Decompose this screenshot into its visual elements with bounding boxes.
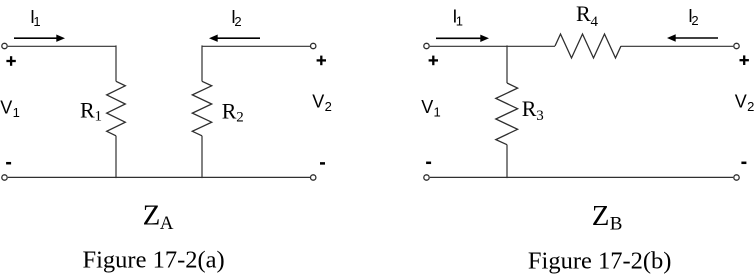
svg-text:A: A (160, 213, 174, 234)
label V1 (b) (421, 97, 441, 120)
label R2 (222, 98, 244, 125)
terminal port2- circle (a) (311, 175, 316, 180)
minus sign port1 (a) (6, 162, 11, 165)
minus sign port1 (b) (426, 162, 431, 165)
label I2 (b) (688, 6, 699, 28)
svg-text:V: V (421, 97, 433, 117)
svg-text:4: 4 (591, 14, 599, 30)
label V1 (a) (0, 97, 20, 120)
svg-text:1: 1 (33, 14, 40, 29)
label ZA (143, 199, 174, 234)
svg-text:R: R (576, 1, 591, 26)
resistor R2 (192, 81, 211, 136)
plus sign port1 (b) (429, 56, 438, 66)
svg-text:B: B (610, 213, 623, 234)
label I2 (a) (231, 7, 242, 29)
current arrow I1 (a) (14, 35, 65, 42)
resistor R3 (496, 83, 518, 145)
svg-text:Z: Z (592, 200, 610, 232)
wire top-right (a) (202, 45, 310, 47)
svg-text:1: 1 (13, 105, 20, 120)
terminal port1- circle (b) (424, 175, 429, 180)
wire R1 bottom lead (115, 136, 117, 178)
label ZB (592, 200, 623, 234)
svg-text:2: 2 (236, 110, 244, 126)
wire top-right (b) (621, 45, 733, 47)
svg-text:V: V (735, 91, 747, 111)
current arrow I2 (b) (667, 34, 718, 41)
terminal port1+ circle (a) (2, 43, 7, 48)
plus sign port1 (a) (6, 56, 15, 66)
svg-text:3: 3 (536, 108, 544, 124)
svg-text:Z: Z (143, 199, 161, 231)
label V2 (a) (312, 92, 332, 115)
wire bottom (b) (430, 176, 733, 178)
terminal port2- circle (b) (734, 175, 739, 180)
wire top-left (a) (8, 45, 116, 47)
terminal port1- circle (a) (2, 175, 7, 180)
wire R1 top lead (115, 45, 117, 81)
wire R2 top lead (201, 45, 203, 81)
minus sign port2 (a) (320, 162, 325, 165)
svg-text:V: V (0, 97, 12, 117)
terminal port1+ circle (b) (424, 43, 429, 48)
svg-text:2: 2 (747, 99, 754, 114)
current arrow I1 (b) (436, 35, 489, 42)
svg-text:2: 2 (234, 14, 241, 29)
svg-text:1: 1 (95, 109, 103, 125)
terminal port2+ circle (a) (311, 43, 316, 48)
minus sign port2 (b) (741, 162, 746, 165)
plus sign port2 (b) (740, 55, 749, 65)
label I1 (b) (452, 6, 463, 28)
svg-text:Figure 17-2(a): Figure 17-2(a) (83, 247, 225, 274)
plus sign port2 (a) (317, 56, 326, 66)
svg-text:Figure 17-2(b): Figure 17-2(b) (528, 247, 672, 274)
wire R3 top lead (506, 45, 508, 83)
svg-text:2: 2 (691, 13, 698, 28)
wire bottom (a) (8, 176, 310, 178)
resistor R4 (555, 34, 621, 58)
label R4 (576, 1, 599, 30)
svg-text:2: 2 (325, 99, 332, 114)
svg-text:1: 1 (434, 105, 441, 120)
label I1 (a) (30, 7, 41, 29)
svg-text:V: V (312, 92, 324, 112)
wire top-left (b) (430, 45, 555, 47)
label V2 (b) (735, 91, 754, 114)
svg-text:R: R (522, 96, 537, 121)
terminal port2+ circle (b) (734, 43, 739, 48)
wire R2 bottom lead (201, 136, 203, 178)
current arrow I2 (a) (209, 35, 260, 42)
label R1 (80, 97, 102, 124)
resistor R1 (107, 81, 126, 136)
svg-text:R: R (222, 98, 237, 123)
svg-text:1: 1 (456, 14, 463, 29)
wire R3 bottom lead (506, 145, 508, 178)
label R3 (522, 96, 544, 124)
svg-text:R: R (80, 97, 95, 122)
